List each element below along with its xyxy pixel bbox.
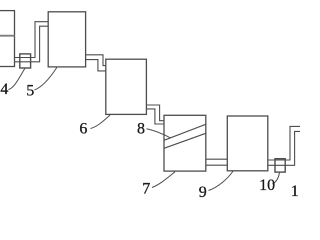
wire pipe box9 through valve 10 and up (upper border): [268, 126, 300, 160]
wire pipe box7 to box9 (lower border): [206, 164, 227, 166]
leader line for label 6: [91, 115, 111, 129]
box 6: [106, 59, 147, 114]
svg-text:4: 4: [0, 81, 8, 98]
svg-text:6: 6: [79, 121, 87, 138]
box 9: [227, 116, 267, 171]
leader line for label 5: [35, 68, 57, 91]
liquid level line: [0, 35, 15, 37]
leader line for label 4: [9, 69, 25, 90]
svg-text:9: 9: [199, 184, 207, 200]
box 5: [48, 12, 85, 67]
valve 10 (small box on pipe): [275, 159, 285, 172]
leader line for label 8: [147, 129, 172, 138]
wire pipe box6 to box7 (upper border): [146, 105, 164, 121]
tank 3 (left, cut off at edge): [0, 11, 15, 67]
wire pipe box5 to box6 (upper border): [86, 55, 106, 66]
leader line for label 9: [209, 171, 234, 191]
wire pipe box9 through valve 10 and up (lower border): [268, 131, 300, 165]
pump 4 (small box on pipe): [20, 54, 31, 68]
leader line for label 10: [273, 173, 280, 184]
svg-text:1: 1: [291, 183, 299, 200]
svg-text:7: 7: [142, 181, 150, 198]
svg-text:10: 10: [259, 177, 275, 194]
wire pipe box5 to box6 (lower border): [86, 60, 106, 71]
wire pipe from tank to box 5 (upper border): [15, 22, 49, 58]
wire pipe from tank to box 5 (lower border): [15, 26, 49, 62]
svg-text:8: 8: [137, 121, 145, 138]
wire pipe box7 to box9 (upper border): [206, 158, 227, 160]
box 7: [164, 115, 206, 171]
svg-text:5: 5: [26, 83, 34, 100]
wire pipe box6 to box7 (lower border): [146, 109, 164, 124]
inclined plate 8 (lower diagonal): [164, 133, 206, 148]
inclined plate 8 (upper diagonal): [164, 124, 206, 140]
leader line for label 7: [152, 172, 175, 188]
